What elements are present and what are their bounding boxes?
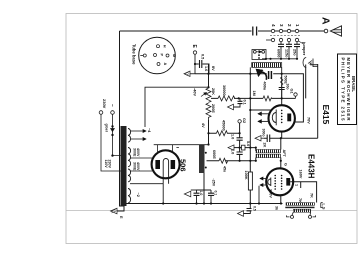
svg-text:A: A [320, 17, 332, 25]
svg-text:1.0: 1.0 [231, 134, 235, 139]
svg-text:Tube base: Tube base [132, 44, 137, 65]
svg-text:200E: 200E [211, 104, 215, 113]
svg-text:300o: 300o [262, 129, 266, 137]
svg-text:30o: 30o [285, 84, 289, 90]
svg-text:400V: 400V [136, 162, 140, 171]
svg-text:2K: 2K [263, 143, 267, 148]
svg-text:M: M [172, 54, 176, 57]
svg-text:G: G [283, 163, 287, 166]
svg-text:380V: 380V [269, 189, 273, 198]
svg-text:115o: 115o [285, 49, 289, 58]
svg-text:7K: 7K [310, 193, 314, 198]
svg-text:0.5: 0.5 [253, 206, 257, 211]
svg-text:jumper: jumper [302, 41, 307, 56]
svg-text:100K: 100K [244, 171, 248, 180]
svg-text:300E: 300E [133, 162, 137, 171]
svg-text:MEYER ROCHWEIGER: MEYER ROCHWEIGER [346, 58, 351, 122]
svg-text:A: A [163, 63, 167, 66]
svg-text:E443H: E443H [307, 154, 316, 179]
svg-text:20K: 20K [211, 88, 215, 95]
svg-text:160V: 160V [299, 170, 303, 179]
svg-text:BRASIL: BRASIL [351, 76, 356, 92]
svg-text:1.0: 1.0 [199, 191, 203, 196]
svg-text:L.S: L.S [322, 204, 326, 210]
svg-text:30000: 30000 [222, 85, 226, 96]
svg-text:1M: 1M [252, 91, 256, 96]
svg-text:AFT: AFT [282, 150, 286, 158]
svg-text:-40V: -40V [193, 88, 197, 96]
svg-text:~: ~ [110, 104, 115, 107]
svg-text:5.0: 5.0 [246, 141, 250, 146]
svg-text:600E: 600E [212, 150, 216, 159]
svg-text:0.5: 0.5 [201, 54, 205, 59]
svg-text:-25V: -25V [212, 179, 216, 187]
svg-text:G2: G2 [242, 118, 246, 123]
svg-text:230V: 230V [107, 160, 111, 169]
svg-text:1.6: 1.6 [204, 66, 208, 71]
svg-text:45000: 45000 [222, 120, 226, 131]
svg-text:400o: 400o [263, 82, 267, 91]
svg-text:6000: 6000 [277, 49, 281, 57]
svg-text:4V: 4V [201, 123, 205, 128]
svg-text:PHILIPS TYPE 2515: PHILIPS TYPE 2515 [341, 58, 346, 122]
svg-text:110V: 110V [104, 160, 108, 169]
svg-text:7K: 7K [298, 198, 302, 203]
svg-text:25o: 25o [293, 49, 297, 56]
svg-text:70V: 70V [307, 117, 311, 124]
svg-text:E415: E415 [321, 105, 331, 125]
svg-text:45o: 45o [223, 166, 227, 173]
svg-text:gloei: gloei [104, 124, 108, 132]
svg-text:~2: ~2 [136, 193, 140, 197]
svg-text:H: H [163, 45, 167, 48]
svg-text:300E: 300E [133, 148, 137, 157]
svg-text:0.1: 0.1 [214, 191, 218, 196]
svg-text:36: 36 [275, 206, 279, 210]
svg-text:0.1: 0.1 [243, 100, 247, 105]
svg-text:1: 1 [295, 184, 299, 186]
svg-text:8V: 8V [211, 66, 215, 71]
svg-text:400V: 400V [136, 148, 140, 157]
svg-text:230V: 230V [102, 99, 107, 109]
